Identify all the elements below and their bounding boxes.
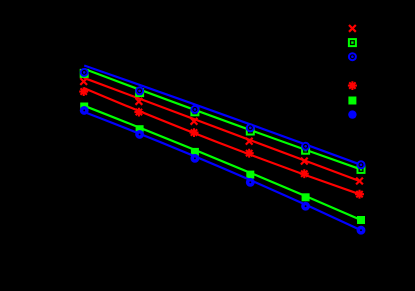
series 5 marker x5 bbox=[302, 193, 310, 201]
series 4 marker x2 bbox=[134, 108, 143, 117]
series 5 marker x6 bbox=[357, 216, 365, 224]
legend marker row2: green open square bbox=[349, 39, 356, 46]
series 2 marker x4 bbox=[247, 128, 254, 135]
series 1 marker x6 bbox=[356, 178, 363, 185]
series 4 marker x6 bbox=[355, 190, 364, 199]
series 3 marker x6 bbox=[358, 161, 365, 168]
series 4 marker x1 bbox=[79, 87, 88, 96]
series 1 marker x4 bbox=[246, 138, 253, 145]
series 6 blue filled-circle line bbox=[84, 112, 361, 230]
legend marker row6: blue filled circle bbox=[348, 110, 356, 118]
series 6 marker x4 bbox=[248, 180, 253, 185]
series 1 red thin-x line bbox=[84, 78, 360, 181]
series 5 marker x1 bbox=[80, 103, 88, 111]
series 5 marker x3 bbox=[191, 148, 199, 156]
series 4 marker x4 bbox=[245, 149, 254, 158]
series 3 marker x5 bbox=[302, 143, 309, 150]
series 2 marker x1 bbox=[81, 70, 88, 77]
series 3 marker x2 bbox=[136, 87, 143, 94]
series 6 marker x5 bbox=[303, 204, 308, 209]
legend marker row1: red thin X bbox=[349, 25, 356, 32]
series 5 marker x2 bbox=[136, 125, 144, 133]
series 5 green filled-square line bbox=[84, 106, 361, 220]
series 4 marker x3 bbox=[190, 128, 199, 137]
series 4 marker x5 bbox=[300, 169, 309, 178]
series 2 marker x5 bbox=[302, 147, 309, 154]
series 2 marker x6 bbox=[358, 166, 365, 173]
series 2 green open-square line bbox=[84, 69, 361, 169]
series 3 marker x3 bbox=[191, 106, 198, 113]
series 1 marker x3 bbox=[191, 118, 198, 125]
legend marker row3: blue open circle bbox=[349, 53, 356, 60]
series 6 marker x1 bbox=[82, 108, 87, 113]
series 1 marker x2 bbox=[136, 98, 143, 105]
series 4 red star line bbox=[84, 88, 360, 194]
legend marker row5: green filled square bbox=[348, 97, 356, 105]
series 6 marker x6 bbox=[358, 228, 363, 233]
series 5 marker x4 bbox=[246, 171, 254, 179]
series 6 marker x3 bbox=[192, 156, 197, 161]
series 3 marker x4 bbox=[247, 124, 254, 131]
series 6 marker x2 bbox=[137, 132, 142, 137]
series 3 marker x1 bbox=[81, 69, 88, 76]
series 2 marker x2 bbox=[136, 89, 143, 96]
series 3 blue open-circle line bbox=[84, 66, 361, 165]
legend marker row4: red star bbox=[348, 81, 357, 90]
series 2 marker x3 bbox=[191, 108, 198, 115]
series 1 marker x1 bbox=[80, 78, 87, 85]
series 1 marker x5 bbox=[301, 158, 308, 165]
